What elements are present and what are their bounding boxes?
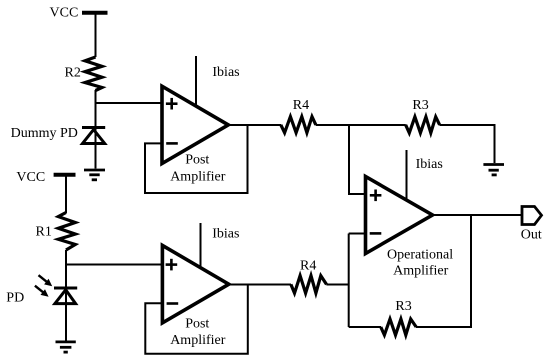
svg-text:R4: R4 [293, 98, 309, 113]
svg-text:Amplifier: Amplifier [393, 264, 449, 279]
svg-text:Amplifier: Amplifier [170, 333, 226, 348]
svg-text:Ibias: Ibias [212, 227, 239, 242]
svg-text:Dummy PD: Dummy PD [11, 126, 78, 141]
svg-text:R2: R2 [65, 66, 81, 81]
svg-text:Ibias: Ibias [212, 65, 239, 80]
svg-text:VCC: VCC [16, 170, 45, 185]
svg-text:Post: Post [185, 153, 209, 168]
svg-text:Operational: Operational [387, 248, 453, 263]
svg-text:Amplifier: Amplifier [170, 169, 226, 184]
svg-text:Ibias: Ibias [416, 157, 443, 172]
svg-text:VCC: VCC [50, 6, 79, 21]
svg-text:R4: R4 [300, 258, 316, 273]
svg-text:PD: PD [6, 290, 24, 305]
svg-text:R3: R3 [412, 98, 428, 113]
svg-text:R1: R1 [36, 225, 52, 240]
svg-text:R3: R3 [395, 299, 411, 314]
svg-text:Post: Post [185, 317, 209, 332]
svg-text:Out: Out [521, 227, 542, 242]
